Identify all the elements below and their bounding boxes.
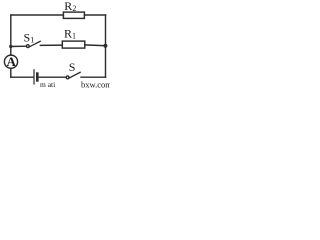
wire left vertical lower (ammeter to bottom corner) — [10, 68, 12, 77]
svg-text:A: A — [7, 54, 17, 69]
wire left vertical upper (corner down to ammeter) — [10, 15, 12, 55]
resistor R1 — [62, 41, 85, 48]
node left junction — [9, 45, 12, 48]
node right junction — [103, 44, 107, 48]
battery short thick plate — [36, 74, 39, 81]
svg-text:m ati: m ati — [40, 80, 55, 88]
wire bottom-middle (battery to switch S) — [39, 76, 67, 78]
wire middle (switch S1 to R1) — [40, 44, 62, 46]
svg-text:R1: R1 — [64, 26, 76, 40]
ammeter A1 circle — [4, 55, 17, 68]
svg-text:bxw.com: bxw.com — [81, 80, 110, 89]
svg-text:S1: S1 — [24, 30, 35, 44]
wire bottom-left (corner to battery) — [11, 76, 34, 78]
resistor R2 — [63, 12, 84, 18]
wire right vertical — [105, 15, 107, 77]
wire top-right (R2 to right corner) — [84, 14, 105, 16]
svg-text:R2: R2 — [64, 0, 76, 13]
switch S lever — [69, 72, 80, 78]
wire bottom-right (switch S to right corner) — [81, 76, 106, 78]
svg-text:S: S — [69, 60, 76, 74]
battery long plate — [33, 70, 35, 84]
switch S contact circle — [66, 76, 69, 79]
wire middle-left (junction to switch S1) — [11, 45, 26, 47]
switch S1 contact circle — [26, 45, 29, 48]
wire top-left (top wire from left corner to R2) — [11, 14, 64, 16]
wire middle-right (R1 to right junction) — [85, 44, 106, 47]
switch S1 lever — [29, 41, 40, 47]
